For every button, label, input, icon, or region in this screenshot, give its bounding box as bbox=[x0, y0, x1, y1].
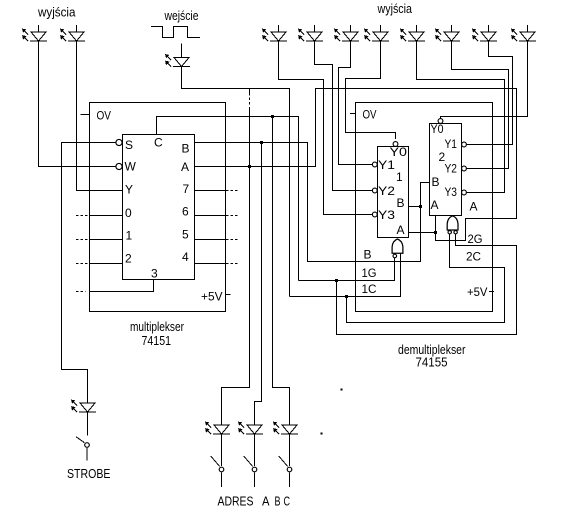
wire D10 to Y1 (U2a) bbox=[339, 41, 373, 165]
wire SW-A bottom stub bbox=[221, 473, 223, 488]
svg-text:A: A bbox=[262, 494, 270, 509]
pin Y3 circle (U2b) bbox=[462, 190, 467, 195]
LED D9 bbox=[298, 29, 323, 42]
svg-text:B: B bbox=[275, 494, 281, 509]
svg-text:Y0: Y0 bbox=[431, 122, 444, 136]
svg-text:A: A bbox=[431, 198, 439, 212]
svg-text:B: B bbox=[397, 196, 405, 210]
svg-text:74155: 74155 bbox=[416, 355, 448, 370]
svg-text:multiplekser: multiplekser bbox=[130, 319, 185, 334]
node on C line (switch C column) bbox=[271, 115, 274, 118]
node B tie bbox=[419, 205, 422, 208]
LED D12 bbox=[400, 29, 425, 42]
LED D11 bbox=[364, 29, 389, 42]
svg-text:Y0: Y0 bbox=[390, 145, 408, 159]
wire switch A column bbox=[222, 107, 250, 425]
svg-text:W: W bbox=[125, 160, 137, 174]
pin 5 wire bbox=[195, 239, 226, 241]
svg-text:2C: 2C bbox=[466, 250, 481, 264]
svg-text:1G: 1G bbox=[362, 266, 377, 280]
pin Y1 circle (U2a) bbox=[372, 162, 377, 167]
svg-text:5: 5 bbox=[182, 228, 189, 242]
stray dot bbox=[321, 433, 323, 435]
LED D6 (ADRES C) bbox=[273, 422, 298, 435]
LED D3 (wejście) bbox=[165, 54, 190, 67]
wire 2G from gate G2 bbox=[337, 234, 517, 335]
wire SW-C bottom stub bbox=[289, 473, 291, 488]
svg-text:A: A bbox=[397, 223, 405, 237]
pin S inverter circle bbox=[116, 139, 122, 145]
wire LED D2 anode stub bbox=[76, 25, 78, 32]
wire wejście net to 1C drop bbox=[182, 67, 290, 297]
svg-text:2G: 2G bbox=[468, 232, 483, 246]
LED D15 bbox=[511, 29, 536, 42]
pin 7 dashed stub bbox=[226, 190, 240, 192]
svg-text:1: 1 bbox=[126, 229, 133, 243]
svg-text:Y: Y bbox=[125, 183, 133, 197]
wire D9 to Y2 (U2a) bbox=[315, 41, 373, 191]
square wave symbol bbox=[151, 27, 200, 38]
node 1C tie bbox=[345, 295, 348, 298]
wire S pin to STROBE branch bbox=[62, 143, 116, 404]
wire LED D1 anode stub bbox=[38, 25, 40, 32]
svg-text:Y3: Y3 bbox=[445, 185, 458, 199]
switch SW-A bbox=[211, 456, 224, 472]
pin 7 wire bbox=[195, 190, 226, 192]
svg-text:OV: OV bbox=[363, 108, 377, 122]
wire switch C column bbox=[273, 117, 290, 426]
svg-text:1C: 1C bbox=[362, 282, 377, 296]
pin Y3 circle (U2a) bbox=[372, 212, 377, 217]
wire D4 to switch bbox=[221, 434, 223, 466]
svg-text:+5V: +5V bbox=[201, 290, 223, 304]
svg-text:ADRES: ADRES bbox=[218, 494, 254, 509]
wire C line from mux bbox=[157, 117, 299, 281]
svg-text:B: B bbox=[432, 175, 440, 189]
svg-text:Y1: Y1 bbox=[445, 137, 458, 151]
wire 1C to gate G1 bbox=[290, 253, 401, 296]
wire LED D1 to W pin bbox=[39, 41, 116, 167]
svg-text:7: 7 bbox=[183, 182, 190, 196]
wire D8 to Y3 (U2a) bbox=[279, 41, 373, 215]
svg-text:Y2: Y2 bbox=[445, 162, 458, 176]
0V tick (mux) bbox=[81, 114, 90, 116]
svg-text:Y3: Y3 bbox=[378, 208, 395, 222]
wire SW-B bottom stub bbox=[254, 473, 256, 488]
svg-text:A: A bbox=[181, 160, 189, 174]
pin 0 dashed stub bbox=[76, 215, 90, 217]
svg-text:OV: OV bbox=[97, 109, 112, 123]
svg-text:0: 0 bbox=[125, 206, 132, 220]
LED D7 (STROBE) bbox=[71, 400, 96, 413]
dashed link to address column bbox=[249, 89, 251, 94]
wire SW-STROBE bottom stub bbox=[86, 448, 88, 461]
wire D13 to Y2 (U2b) bbox=[452, 41, 509, 169]
pin 0 wire bbox=[90, 215, 123, 217]
svg-text:C: C bbox=[284, 494, 291, 509]
demux outer box bbox=[356, 103, 493, 312]
pin 6 dashed stub bbox=[226, 215, 240, 217]
node on A line (switch A column) bbox=[248, 165, 251, 168]
svg-text:C: C bbox=[154, 136, 163, 150]
LED D14 bbox=[472, 29, 497, 42]
chip U2a (74155 half 1) body bbox=[378, 147, 409, 238]
node A tie bbox=[434, 231, 437, 234]
chip U1 74151 body bbox=[123, 135, 195, 280]
svg-text:74151: 74151 bbox=[142, 333, 172, 348]
pin Y0 circle (U2a top) bbox=[393, 142, 398, 147]
pin 3 wire bbox=[90, 280, 154, 292]
pin Y2 circle (U2a) bbox=[372, 188, 377, 193]
svg-text:B: B bbox=[364, 248, 372, 262]
svg-text:wyjścia: wyjścia bbox=[377, 1, 413, 16]
pin 2 dashed stub bbox=[76, 263, 90, 265]
LED D2 bbox=[60, 29, 85, 42]
switch SW-B bbox=[244, 456, 257, 472]
0V tick (demux) bbox=[350, 113, 356, 115]
pin 1 wire bbox=[90, 239, 123, 241]
switch SW-STROBE bbox=[76, 437, 89, 448]
svg-text:1: 1 bbox=[396, 170, 403, 184]
wire D7 to switch bbox=[87, 412, 89, 436]
LED D8 bbox=[262, 29, 287, 42]
wire switch B column bbox=[255, 143, 262, 426]
pin 4 wire bbox=[195, 263, 226, 265]
svg-text:A: A bbox=[470, 200, 478, 214]
wire D14 to Y1 (U2b) bbox=[467, 41, 513, 145]
wire B line from mux bbox=[195, 143, 430, 262]
svg-text:S: S bbox=[125, 138, 133, 152]
pin Y0 circle (U2b top) bbox=[438, 119, 443, 124]
wire D5 to switch bbox=[254, 434, 256, 466]
svg-text:wyjścia: wyjścia bbox=[37, 5, 76, 20]
pin Y1 circle (U2b) bbox=[462, 142, 467, 147]
LED D10 bbox=[334, 29, 359, 42]
LED D4 (ADRES A) bbox=[205, 422, 230, 435]
LED D13 bbox=[435, 29, 460, 42]
U2b B pin wire bbox=[421, 182, 430, 184]
LED D5 (ADRES B) bbox=[238, 422, 263, 435]
mux outer box bbox=[90, 103, 226, 312]
gate G1 (U2a enable) bbox=[392, 239, 403, 258]
+5V tick (mux) bbox=[226, 294, 231, 296]
wire LED D2 to Y pin bbox=[77, 41, 123, 191]
node on B line (switch B column) bbox=[260, 141, 263, 144]
pin 6 wire bbox=[195, 215, 226, 217]
U2b A pin wire (down from chip) bbox=[435, 216, 437, 241]
wire 1G to gate G1 bbox=[299, 258, 395, 281]
wire D11 to Y0 (U2a) bbox=[346, 41, 396, 139]
pin 2 wire bbox=[90, 263, 123, 265]
svg-text:wejście: wejście bbox=[164, 8, 199, 23]
node 1G tie bbox=[335, 279, 338, 282]
gate G2 (U2b enable) bbox=[447, 216, 458, 234]
stray dot 2 bbox=[341, 389, 343, 391]
svg-text:STROBE: STROBE bbox=[67, 466, 111, 481]
svg-text:B: B bbox=[182, 142, 190, 156]
svg-text:2: 2 bbox=[125, 252, 132, 266]
wire 2C from gate G2 bbox=[347, 234, 505, 323]
pin Y2 circle (U2b) bbox=[462, 166, 467, 171]
wire D12 to Y3 (U2b) bbox=[417, 41, 505, 193]
wire D6 to switch bbox=[289, 434, 291, 466]
svg-text:4: 4 bbox=[182, 250, 189, 264]
wire LED D3 anode stub bbox=[181, 44, 183, 58]
svg-text:Y1: Y1 bbox=[378, 158, 395, 172]
wire A line from mux bbox=[195, 89, 517, 241]
pin 4 dashed stub bbox=[226, 263, 240, 265]
U2a A pin wire bbox=[409, 232, 436, 234]
svg-text:Y2: Y2 bbox=[378, 184, 395, 198]
pin 1 dashed stub bbox=[76, 239, 90, 241]
+5V tick (demux) bbox=[489, 291, 494, 293]
wire D15 to Y0 (U2b) bbox=[441, 41, 528, 119]
pin 5 dashed stub bbox=[226, 239, 240, 241]
U2a B pin wire bbox=[409, 206, 421, 208]
LED D1 (left outputs) bbox=[22, 29, 47, 42]
chip U2b (74155 half 2) body bbox=[430, 124, 462, 216]
pin 3 dashed stub bbox=[76, 291, 86, 293]
pin W inverter circle bbox=[116, 163, 122, 169]
svg-text:+5V: +5V bbox=[467, 285, 488, 299]
svg-text:3: 3 bbox=[151, 267, 158, 281]
switch SW-C bbox=[279, 456, 292, 472]
svg-text:6: 6 bbox=[182, 205, 189, 219]
